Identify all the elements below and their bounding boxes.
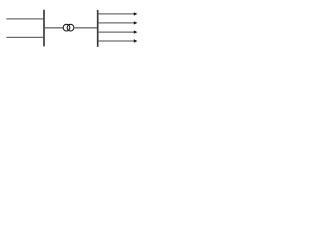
wire: outgoing feeder arrow 2 line: [98, 22, 134, 24]
busbar B2 (right vertical bus): [97, 10, 99, 47]
wire: outgoing feeder arrow 4 line: [98, 40, 134, 42]
wire: outgoing feeder arrow 1 line: [98, 13, 134, 15]
arrowhead: outgoing feeder 2: [134, 21, 138, 24]
transformer T1 primary winding (left circle): [63, 24, 70, 31]
transformer T1 secondary winding (right circle): [67, 24, 74, 31]
wire: incoming feeder line 1 (top left): [6, 18, 43, 20]
arrowhead: outgoing feeder 3: [134, 30, 138, 33]
busbar B1 (left vertical bus): [43, 10, 45, 47]
arrowhead: outgoing feeder 1: [134, 12, 138, 15]
wire: bus B1 to transformer primary: [45, 27, 64, 29]
wire: transformer secondary to bus B2: [74, 27, 98, 29]
wire: outgoing feeder arrow 3 line: [98, 31, 134, 33]
wire: incoming feeder line 2 (bottom left): [6, 36, 43, 38]
arrowhead: outgoing feeder 4: [134, 39, 138, 42]
